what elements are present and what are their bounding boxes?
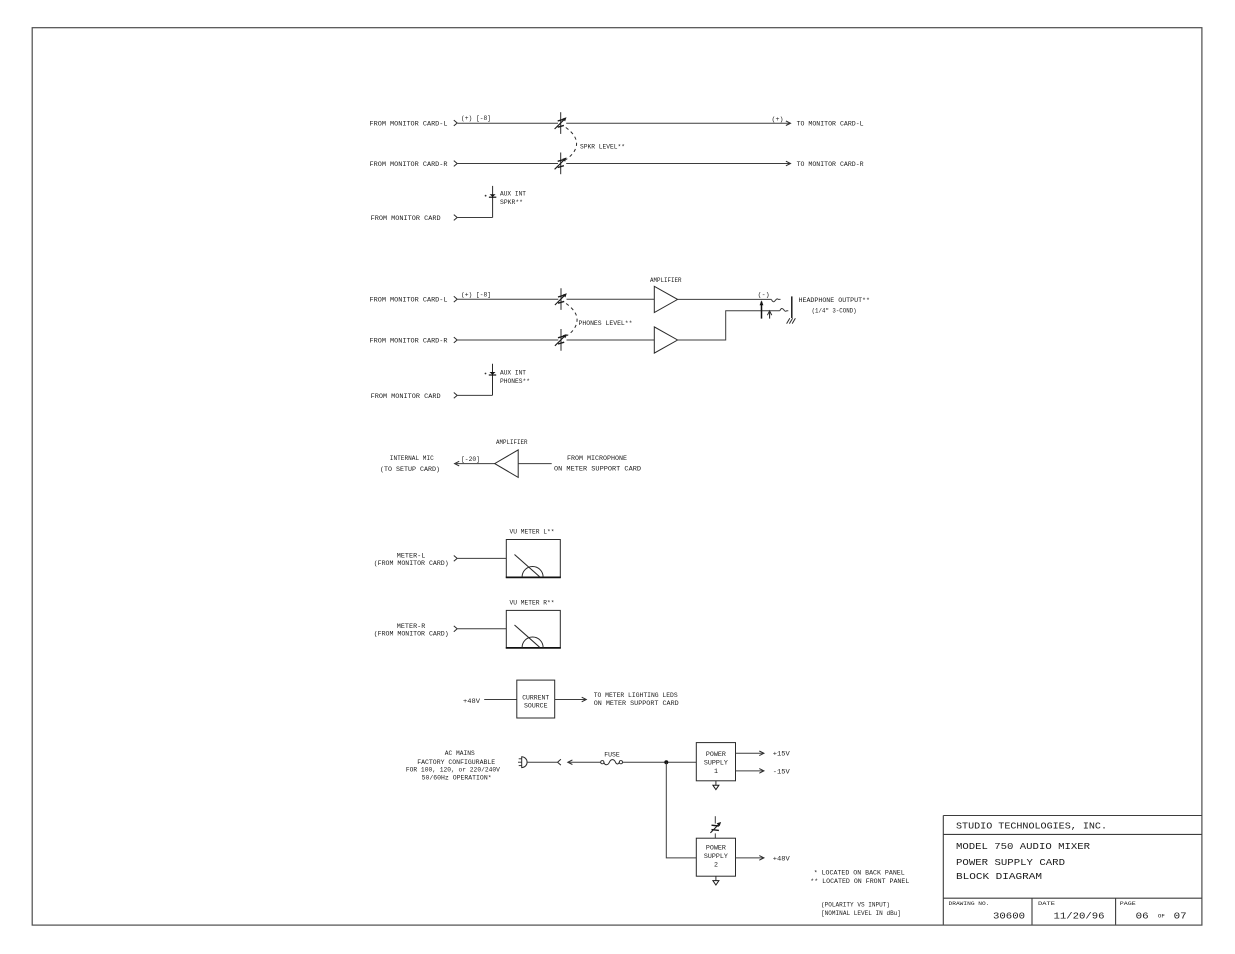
VU meter R needle bbox=[515, 625, 540, 647]
svg-text:ON METER SUPPORT CARD: ON METER SUPPORT CARD bbox=[594, 700, 679, 708]
svg-text:TO MONITOR CARD-R: TO MONITOR CARD-R bbox=[797, 161, 864, 169]
wire mic amp input bbox=[518, 463, 552, 465]
fuse F1 bbox=[601, 760, 623, 765]
svg-text:+48V: +48V bbox=[773, 855, 791, 863]
jack ring contact arrow bbox=[767, 311, 771, 319]
input chevron R bbox=[454, 161, 457, 167]
svg-text:(POLARITY VS INPUT): (POLARITY VS INPUT) bbox=[821, 901, 890, 909]
svg-text:PAGE: PAGE bbox=[1120, 900, 1137, 907]
VU meter R bold bottom bbox=[506, 647, 561, 649]
wire +48V output bbox=[736, 857, 764, 859]
svg-text:FROM MICROPHONE: FROM MICROPHONE bbox=[567, 455, 627, 463]
potentiometer SPKR LEVEL L bbox=[555, 112, 567, 134]
arrowhead left at fuse wire bbox=[568, 760, 573, 765]
op-amp headphone L bbox=[654, 286, 677, 312]
input chevron phones L bbox=[454, 296, 457, 302]
wire mic amp output bbox=[455, 463, 495, 465]
VU meter L needle bbox=[515, 555, 540, 577]
svg-text:(TO SETUP CARD): (TO SETUP CARD) bbox=[380, 466, 440, 474]
svg-text:SOURCE: SOURCE bbox=[524, 703, 548, 711]
power supply 1 box PS1 bbox=[696, 743, 735, 781]
wire phones L pot to amp bbox=[567, 298, 655, 300]
svg-text:DRAWING NO.: DRAWING NO. bbox=[949, 900, 990, 907]
input chevron phones R bbox=[454, 337, 457, 343]
wire from monitor card to aux phones connector bbox=[458, 394, 493, 396]
svg-text:FROM MONITOR CARD-L: FROM MONITOR CARD-L bbox=[370, 297, 448, 305]
jack tip spring squiggle bbox=[771, 299, 780, 302]
svg-text:FROM MONITOR CARD: FROM MONITOR CARD bbox=[371, 393, 441, 401]
svg-text:(+) [-8]: (+) [-8] bbox=[461, 291, 491, 299]
svg-text:07: 07 bbox=[1174, 911, 1187, 922]
svg-text:POWER: POWER bbox=[706, 751, 726, 759]
arrowhead internal mic (left) bbox=[455, 461, 460, 466]
svg-text:(+) [-8]: (+) [-8] bbox=[461, 115, 491, 123]
arrowhead +48V bbox=[759, 856, 764, 861]
chassis arrow PS2 bbox=[713, 876, 719, 885]
svg-text:SPKR**: SPKR** bbox=[500, 199, 523, 207]
ganged control dashed link SPKR bbox=[566, 128, 577, 160]
wire amp L to jack bbox=[678, 298, 772, 300]
input chevron aux spkr bbox=[454, 215, 457, 221]
wire R pot to output bbox=[566, 163, 790, 165]
svg-text:1: 1 bbox=[714, 768, 718, 776]
wire fuse to PS1 bbox=[623, 761, 697, 763]
svg-text:AMPLIFIER: AMPLIFIER bbox=[650, 277, 682, 285]
AC plug connector J-AC bbox=[518, 757, 527, 768]
svg-text:[NOMINAL LEVEL IN dBu]: [NOMINAL LEVEL IN dBu] bbox=[821, 910, 901, 918]
svg-text:AC MAINS: AC MAINS bbox=[445, 750, 475, 758]
wire amp R up to jack ring bbox=[678, 311, 780, 340]
aux int phones connector bbox=[485, 364, 497, 396]
wire +15V output bbox=[736, 752, 764, 754]
wire meter R bbox=[458, 628, 507, 630]
mating chevron < bbox=[558, 759, 561, 765]
VU meter L bold bottom bbox=[506, 576, 561, 578]
svg-text:SUPPLY: SUPPLY bbox=[704, 759, 728, 767]
svg-text:(1/4" 3-COND): (1/4" 3-COND) bbox=[812, 308, 857, 316]
input chevron meter R bbox=[454, 626, 457, 632]
arrowhead current source output bbox=[582, 697, 587, 702]
jack sleeve line bbox=[791, 296, 793, 318]
svg-text:ON METER SUPPORT CARD: ON METER SUPPORT CARD bbox=[554, 465, 641, 473]
svg-text:** LOCATED ON FRONT PANEL: ** LOCATED ON FRONT PANEL bbox=[810, 878, 909, 886]
wire phones R pot to amp bbox=[567, 339, 655, 341]
svg-text:30600: 30600 bbox=[993, 911, 1025, 922]
svg-text:HEADPHONE OUTPUT**: HEADPHONE OUTPUT** bbox=[799, 297, 871, 305]
svg-text:AUX INT: AUX INT bbox=[500, 369, 526, 377]
svg-text:INTERNAL MIC: INTERNAL MIC bbox=[390, 455, 434, 463]
arrowhead -15V bbox=[759, 769, 764, 774]
title block cell dividers bbox=[1032, 898, 1116, 924]
junction node bbox=[664, 760, 668, 764]
svg-text:POWER: POWER bbox=[706, 845, 726, 853]
svg-text:AMPLIFIER: AMPLIFIER bbox=[496, 439, 528, 447]
wire phones R to pot bbox=[458, 339, 559, 341]
jack sleeve ground bbox=[787, 318, 796, 323]
wire arrow to fuse bbox=[568, 761, 601, 763]
wire phones L to pot bbox=[458, 298, 559, 300]
jack tip contact arrow bbox=[760, 300, 764, 318]
svg-text:[-20]: [-20] bbox=[461, 456, 480, 464]
svg-text:OF: OF bbox=[1158, 913, 1165, 920]
svg-text:VU METER L**: VU METER L** bbox=[510, 528, 555, 536]
op-amp headphone R bbox=[654, 327, 677, 353]
svg-text:SUPPLY: SUPPLY bbox=[704, 853, 728, 861]
title block frame bbox=[943, 816, 1202, 925]
arrowhead +15V bbox=[759, 751, 764, 756]
svg-text:-15V: -15V bbox=[773, 768, 791, 776]
svg-text:2: 2 bbox=[714, 861, 718, 869]
wire PS2 adjust top bbox=[714, 816, 716, 823]
svg-text:SPKR LEVEL**: SPKR LEVEL** bbox=[580, 143, 625, 151]
wire junction down to PS2 bbox=[666, 762, 696, 858]
svg-text:+48V: +48V bbox=[463, 698, 481, 706]
svg-text:FROM MONITOR CARD-R: FROM MONITOR CARD-R bbox=[370, 337, 448, 345]
svg-text:50/60Hz OPERATION*: 50/60Hz OPERATION* bbox=[422, 775, 492, 783]
svg-text:(+): (+) bbox=[772, 116, 784, 124]
VU meter R box bbox=[506, 610, 560, 648]
power supply 2 box PS2 bbox=[696, 838, 735, 876]
arrowhead to monitor card L bbox=[786, 121, 791, 126]
svg-text:FROM MONITOR CARD-L: FROM MONITOR CARD-L bbox=[370, 120, 448, 128]
svg-text:TO MONITOR CARD-L: TO MONITOR CARD-L bbox=[797, 120, 864, 128]
aux int spkr connector bbox=[485, 186, 497, 218]
wire L pot to output bbox=[566, 122, 790, 124]
wire meter L bbox=[458, 557, 507, 559]
svg-text:MODEL 750 AUDIO MIXER: MODEL 750 AUDIO MIXER bbox=[956, 841, 1090, 852]
input chevron meter L bbox=[454, 556, 457, 562]
svg-text:TO METER LIGHTING LEDS: TO METER LIGHTING LEDS bbox=[594, 692, 678, 700]
potentiometer SPKR LEVEL R bbox=[555, 153, 567, 175]
potentiometer PS2 adjust (vertical) bbox=[710, 822, 721, 833]
op-amp mic (pointing left) bbox=[495, 450, 519, 478]
svg-text:FROM MONITOR CARD: FROM MONITOR CARD bbox=[371, 215, 441, 223]
wire from monitor card to aux spkr connector bbox=[458, 217, 493, 219]
svg-text:FOR 100, 120, or 220/240V: FOR 100, 120, or 220/240V bbox=[406, 767, 501, 775]
potentiometer PHONES LEVEL R bbox=[555, 329, 567, 351]
wire current source output bbox=[555, 699, 586, 701]
svg-text:11/20/96: 11/20/96 bbox=[1054, 911, 1105, 922]
svg-text:STUDIO TECHNOLOGIES, INC.: STUDIO TECHNOLOGIES, INC. bbox=[956, 820, 1107, 831]
wire plug to connector gap bbox=[527, 761, 557, 763]
svg-text:VU METER R**: VU METER R** bbox=[510, 599, 555, 607]
VU meter L arc bbox=[522, 567, 543, 578]
svg-text:AUX INT: AUX INT bbox=[500, 190, 526, 198]
svg-text:DATE: DATE bbox=[1038, 900, 1056, 907]
arrowhead to monitor card R bbox=[786, 161, 791, 166]
wire L input to pot bbox=[458, 122, 558, 124]
wire -15V output bbox=[736, 770, 764, 772]
wire +48V to current source bbox=[484, 699, 517, 701]
input chevron aux phones bbox=[454, 393, 457, 399]
svg-text:(FROM MONITOR CARD): (FROM MONITOR CARD) bbox=[374, 560, 449, 568]
svg-text:(FROM MONITOR CARD): (FROM MONITOR CARD) bbox=[374, 630, 449, 638]
chassis arrow PS1 bbox=[713, 781, 719, 790]
svg-text:FUSE: FUSE bbox=[604, 751, 620, 759]
input chevron L bbox=[454, 120, 457, 126]
svg-text:POWER SUPPLY CARD: POWER SUPPLY CARD bbox=[956, 857, 1065, 868]
svg-text:PHONES LEVEL**: PHONES LEVEL** bbox=[579, 320, 633, 328]
VU meter R arc bbox=[522, 637, 543, 648]
svg-text:FROM MONITOR CARD-R: FROM MONITOR CARD-R bbox=[370, 161, 448, 169]
potentiometer PHONES LEVEL L bbox=[555, 288, 567, 310]
VU meter L box bbox=[506, 540, 560, 578]
svg-text:+15V: +15V bbox=[773, 751, 791, 759]
svg-text:06: 06 bbox=[1136, 911, 1149, 922]
svg-text:CURRENT: CURRENT bbox=[522, 694, 549, 702]
wire R input to pot bbox=[458, 163, 558, 165]
current source box U-CS bbox=[517, 680, 555, 718]
svg-text:* LOCATED ON BACK PANEL: * LOCATED ON BACK PANEL bbox=[814, 869, 905, 877]
svg-text:BLOCK DIAGRAM: BLOCK DIAGRAM bbox=[956, 871, 1042, 882]
jack ring spring squiggle bbox=[780, 308, 789, 311]
svg-text:(-): (-) bbox=[758, 292, 770, 300]
ganged control dashed link PHONES bbox=[566, 304, 577, 337]
svg-text:PHONES**: PHONES** bbox=[500, 378, 530, 386]
